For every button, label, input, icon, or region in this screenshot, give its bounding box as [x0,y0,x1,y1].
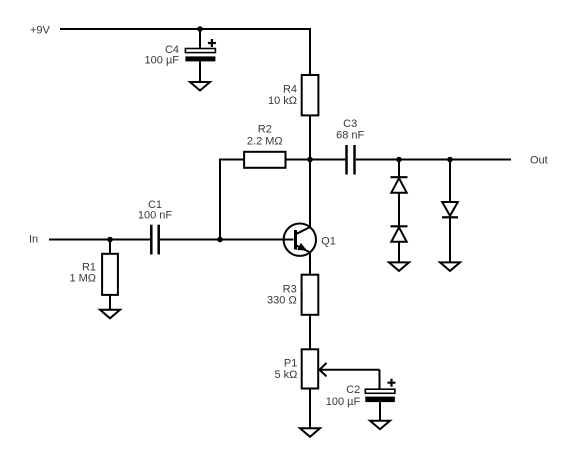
wire In to R1 junction [49,239,110,241]
resistor R1 [102,254,118,295]
resistor R4 [302,75,319,115]
svg-text:R4: R4 [283,84,297,96]
capacitor C4 (electrolytic) [185,39,216,61]
svg-text:68 nF: 68 nF [336,130,364,142]
ground P1 [300,428,320,437]
wire R1 top [109,240,111,254]
wire junction to C1 [110,239,150,241]
svg-text:C3: C3 [343,118,357,130]
wire C1 to base [160,239,294,241]
wire collector node to C3 [310,159,345,161]
diode D2 (cathode up) [391,226,408,242]
diode D1 (cathode up) [391,177,408,193]
wire C4 to rail [199,29,201,49]
diode D3 (cathode down) [442,202,458,217]
ground C4 [190,82,210,91]
wire R3 to P1 [309,315,311,350]
capacitor C1 [151,225,158,255]
capacitor C2 (electrolytic) [365,379,395,402]
wire node to diode D3 [449,160,451,203]
svg-text:Out: Out [530,154,548,166]
wire R4 to collector node [309,115,311,159]
junction C4 top [197,26,203,32]
ground D2 [389,262,409,271]
resistor R2 [244,152,285,168]
capacitor C3 [347,145,355,175]
transistor Q1 [284,224,316,256]
resistor R3 [302,275,319,315]
svg-text:100 nF: 100 nF [138,210,173,222]
ground D3 [440,262,460,271]
wire emitter to R3 [309,252,311,274]
svg-text:In: In [29,233,38,245]
wire +9V rail [60,28,310,30]
wire R2 right to collector node [286,159,311,161]
ground R1 [100,310,120,319]
wire C4 to ground [199,61,201,82]
svg-text:2.2 MΩ: 2.2 MΩ [247,135,283,147]
svg-text:Q1: Q1 [321,236,336,248]
svg-text:R2: R2 [258,124,272,136]
wire D3 to ground [449,217,451,262]
svg-text:+9V: +9V [30,25,51,37]
wire D2 to ground [398,242,400,263]
wire D1 to D2 [398,193,400,227]
wire wiper to C2 [379,370,381,390]
wire node to diode D1 [398,160,400,178]
svg-text:100 µF: 100 µF [145,54,180,66]
svg-text:10 kΩ: 10 kΩ [268,95,297,107]
wire C3 to diode node [356,159,399,161]
wire R1 to ground [109,295,111,310]
svg-text:100 µF: 100 µF [326,396,361,408]
potentiometer P1 [302,349,380,388]
wire rail corner down to R4 [309,28,311,75]
wire P1 to ground [309,389,311,429]
svg-text:5 kΩ: 5 kΩ [274,369,297,381]
wire C2 to ground [379,402,381,421]
wire collector [309,160,311,228]
junction diode chain 2 [447,157,453,163]
wire diode node to second diode node [399,159,450,161]
junction base/R2 [217,237,223,243]
junction diode chain 1 [396,157,402,163]
svg-text:1 MΩ: 1 MΩ [69,273,96,285]
wire out [450,159,511,161]
svg-text:P1: P1 [284,358,297,370]
ground C2 [370,421,390,430]
wire R2 left to base node [220,160,244,240]
svg-text:330 Ω: 330 Ω [267,294,297,306]
junction In/R1 [107,237,113,243]
junction collector node [307,157,313,163]
svg-text:C2: C2 [346,384,360,396]
